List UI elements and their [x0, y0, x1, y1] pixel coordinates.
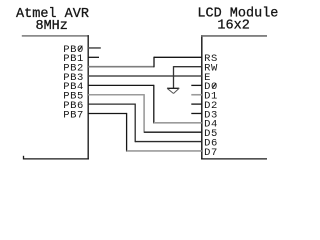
wire D6 horizontal run [135, 141, 202, 143]
wire PB3 to E straight run [88, 75, 202, 77]
wire D4 horizontal run [154, 122, 202, 124]
LCD module box left edge [201, 35, 203, 159]
wire PB4 vertical leg [153, 85, 155, 124]
slash of zero in D0 [212, 83, 216, 88]
pin stub D3 (unconnected) [191, 112, 202, 114]
LCD module box top edge [201, 35, 267, 37]
slash of zero in PB0 [78, 46, 82, 51]
wire PB6 horizontal run [88, 103, 135, 105]
AVR U1 box bottom edge [23, 158, 89, 160]
pin stub PB0 (unconnected) [88, 47, 101, 49]
AVR U1 box right edge [87, 35, 89, 159]
LCD module box bottom edge [201, 158, 267, 160]
wire D7 horizontal run [127, 150, 202, 152]
wire D5 horizontal run [144, 131, 202, 133]
wire PB4 horizontal run [88, 84, 154, 86]
pin stub D1 (unconnected) [191, 94, 202, 96]
wire PB7 vertical leg [126, 113, 128, 152]
AVR U1 box bottom-left tick [23, 156, 25, 160]
wire PB7 horizontal run [88, 112, 126, 114]
wire PB2 horizontal run [88, 66, 154, 68]
wire RS horizontal run [154, 56, 202, 58]
svg-text:D7: D7 [204, 147, 218, 159]
ground symbol left diagonal [167, 88, 173, 93]
ground symbol top bar [167, 87, 179, 89]
wire PB5 horizontal run [88, 94, 144, 96]
pin stub D2 (unconnected) [191, 103, 202, 105]
svg-text:8MHz: 8MHz [35, 19, 67, 34]
ground symbol right diagonal [174, 88, 180, 93]
pin stub D0 (unconnected) [191, 84, 202, 86]
svg-text:PB7: PB7 [63, 109, 84, 121]
wire PB5 vertical leg [143, 94, 145, 133]
AVR U1 box top edge [22, 35, 89, 37]
wire PB6 vertical leg [134, 104, 136, 143]
wire PB2-to-RS vertical jog [153, 57, 155, 68]
wire RW horizontal run [174, 66, 202, 68]
pin stub PB1 (unconnected) [88, 56, 99, 58]
svg-text:16x2: 16x2 [217, 19, 249, 34]
wire RW to ground vertical [173, 66, 175, 88]
